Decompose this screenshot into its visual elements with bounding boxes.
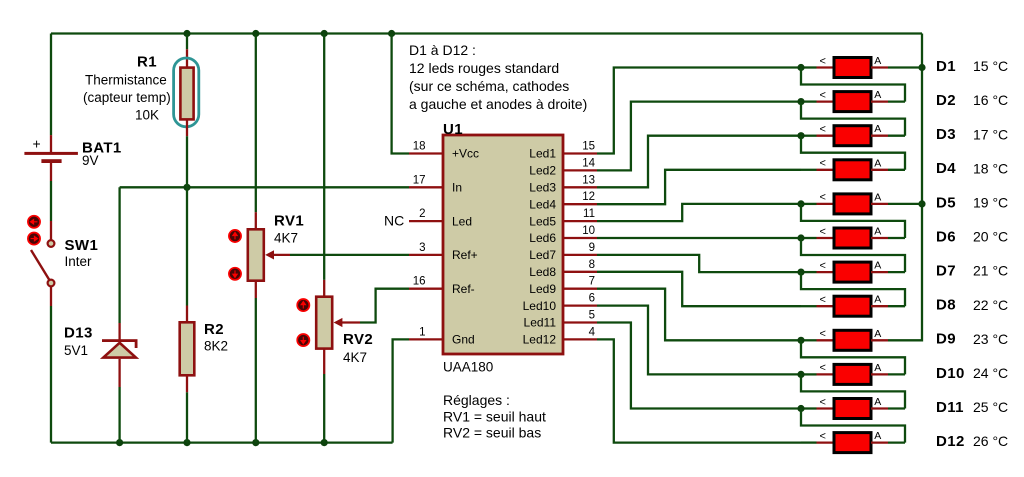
RV1 wiper arrow xyxy=(265,250,274,259)
wire D7 anode to chain xyxy=(888,271,905,273)
LED D3 anode lead xyxy=(871,135,888,137)
node bus D1 xyxy=(918,64,925,71)
svg-text:A: A xyxy=(874,430,881,442)
svg-text:23 °C: 23 °C xyxy=(973,331,1008,347)
svg-text:<: < xyxy=(820,158,826,170)
svg-text:Led4: Led4 xyxy=(529,197,556,211)
LED D3 cathode lead xyxy=(801,135,817,137)
svg-text:16 °C: 16 °C xyxy=(973,92,1008,108)
thermistor envelope xyxy=(174,58,199,127)
wire R2 bottom lead xyxy=(186,375,188,392)
wire pin 13 to D3 xyxy=(597,136,801,188)
svg-text:D1 à D12 :: D1 à D12 : xyxy=(409,42,476,58)
svg-text:RV1 = seuil haut: RV1 = seuil haut xyxy=(443,409,546,425)
LED D11 xyxy=(834,399,871,419)
wire pin 11 to D5 xyxy=(597,204,801,221)
wire D2 anode to chain xyxy=(888,100,905,102)
pin 11 stub xyxy=(563,220,597,222)
node D6 cathode xyxy=(797,234,804,241)
pin 8 stub xyxy=(563,271,597,273)
svg-text:D5: D5 xyxy=(936,194,956,211)
LED D10 cathode lead xyxy=(801,373,817,375)
svg-text:24 °C: 24 °C xyxy=(973,365,1008,381)
RV1 actuator down xyxy=(229,268,241,280)
svg-text:Led12: Led12 xyxy=(523,333,557,347)
battery BAT1 xyxy=(24,152,78,155)
svg-text:A: A xyxy=(874,157,881,169)
pin 17 stub xyxy=(409,186,443,188)
resistor R1 xyxy=(180,68,193,120)
svg-text:12: 12 xyxy=(582,191,595,203)
svg-text:13: 13 xyxy=(582,174,595,186)
svg-text:Réglages :: Réglages : xyxy=(443,392,510,408)
LED D4 anode lead xyxy=(871,169,888,171)
svg-text:8: 8 xyxy=(589,259,595,271)
RV2 wiper arrow xyxy=(334,318,343,327)
svg-text:Led1: Led1 xyxy=(529,147,556,161)
wire R2 top lead xyxy=(186,187,188,305)
pin 7 stub xyxy=(563,288,597,290)
svg-text:<: < xyxy=(820,362,826,374)
svg-text:Led: Led xyxy=(452,214,472,228)
pin 3 stub xyxy=(409,254,443,256)
wire pin 9 to D7 xyxy=(597,255,801,272)
LED D5 cathode lead xyxy=(801,203,817,205)
svg-text:Inter: Inter xyxy=(65,254,93,269)
svg-text:<: < xyxy=(820,89,826,101)
wire gnd riser xyxy=(393,339,409,442)
svg-text:Led3: Led3 xyxy=(529,181,556,195)
wire D4 anode to chain xyxy=(888,169,905,171)
node top rail / R1 xyxy=(183,30,190,37)
svg-text:26 °C: 26 °C xyxy=(973,433,1008,449)
LED D9 xyxy=(834,330,871,350)
svg-text:Gnd: Gnd xyxy=(452,333,475,347)
svg-text:<: < xyxy=(820,260,826,272)
LED D8 anode lead xyxy=(871,305,888,307)
svg-text:Led2: Led2 xyxy=(529,164,556,178)
svg-text:(capteur temp): (capteur temp) xyxy=(83,90,171,105)
potentiometer RV2 xyxy=(316,297,332,349)
wire R1 bottom lead xyxy=(186,119,188,136)
pin 6 stub xyxy=(563,304,597,306)
svg-text:NC: NC xyxy=(384,212,404,228)
svg-text:Led10: Led10 xyxy=(523,299,557,313)
pin 16 stub xyxy=(409,288,443,290)
node bottom rail / R2 xyxy=(183,439,190,446)
node D9 cathode xyxy=(797,337,804,344)
switch SW1 actuator up xyxy=(28,216,40,228)
wire pin 15 to D1 xyxy=(597,68,801,154)
wire pin 12 to D4 xyxy=(597,170,801,204)
svg-text:15 °C: 15 °C xyxy=(973,58,1008,74)
pin 12 stub xyxy=(563,203,597,205)
svg-text:Led5: Led5 xyxy=(529,214,556,228)
svg-text:<: < xyxy=(820,124,826,136)
svg-text:A: A xyxy=(874,260,881,272)
wire D1 anode to bus xyxy=(888,66,922,68)
svg-text:<: < xyxy=(820,328,826,340)
wire R1 top lead xyxy=(186,34,188,50)
diode D13 xyxy=(102,339,138,342)
svg-text:Led6: Led6 xyxy=(529,231,556,245)
pin 10 stub xyxy=(563,237,597,239)
wire bottom ground rail xyxy=(51,441,393,443)
wire chain D7 to D8 xyxy=(801,272,905,306)
LED D7 xyxy=(834,262,871,282)
svg-text:6: 6 xyxy=(589,293,595,305)
node D10 cathode xyxy=(797,371,804,378)
svg-text:+Vcc: +Vcc xyxy=(452,147,479,161)
svg-text:<: < xyxy=(820,294,826,306)
LED D6 cathode lead xyxy=(801,237,817,239)
svg-text:16: 16 xyxy=(413,276,426,288)
svg-text:Led8: Led8 xyxy=(529,265,556,279)
LED D6 anode lead xyxy=(871,237,888,239)
node D3 cathode xyxy=(797,132,804,139)
LED D2 cathode lead xyxy=(801,100,817,102)
wire pin 5 to D11 xyxy=(597,323,801,409)
node top rail / RV2 xyxy=(321,30,328,37)
svg-text:D4: D4 xyxy=(936,160,956,177)
LED D8 cathode lead xyxy=(801,305,817,307)
svg-text:D6: D6 xyxy=(936,228,956,245)
LED D1 anode lead xyxy=(871,66,888,68)
pin 15 stub xyxy=(563,152,597,154)
LED D4 xyxy=(834,160,871,180)
svg-text:<: < xyxy=(820,396,826,408)
svg-text:10: 10 xyxy=(582,225,595,237)
svg-text:18 °C: 18 °C xyxy=(973,160,1008,176)
svg-text:9V: 9V xyxy=(82,153,99,168)
pin 18 stub xyxy=(409,152,443,154)
wire RV1 top feed xyxy=(255,34,257,213)
LED D1 xyxy=(834,58,871,78)
LED D7 cathode lead xyxy=(801,271,817,273)
switch SW1 xyxy=(31,250,50,281)
svg-text:A: A xyxy=(874,89,881,101)
svg-text:(sur ce schéma, cathodes: (sur ce schéma, cathodes xyxy=(409,78,569,94)
LED D5 anode lead xyxy=(871,203,888,205)
svg-text:A: A xyxy=(874,362,881,374)
op-amp U1 body xyxy=(443,135,563,354)
LED D7 anode lead xyxy=(871,271,888,273)
node top rail / pin 18 feed xyxy=(388,30,395,37)
svg-text:2: 2 xyxy=(419,208,425,220)
wire D11 anode to chain xyxy=(888,407,905,409)
svg-text:D8: D8 xyxy=(936,297,956,314)
wire D12 anode to chain xyxy=(888,441,905,443)
wire chain D3 to D4 xyxy=(801,136,905,170)
svg-text:D11: D11 xyxy=(936,399,964,416)
wire D3 anode to chain xyxy=(888,135,905,137)
LED D5 xyxy=(834,194,871,214)
pin 5 stub xyxy=(563,321,597,323)
node D11 cathode xyxy=(797,405,804,412)
svg-text:A: A xyxy=(874,396,881,408)
svg-text:11: 11 xyxy=(583,208,595,220)
wire D13 to ground xyxy=(118,359,120,387)
wire pin 7 to D9 xyxy=(597,289,801,341)
svg-text:3: 3 xyxy=(419,242,425,254)
wire pin 14 to D2 xyxy=(597,102,801,171)
wire chain D2 to D3 xyxy=(801,102,905,136)
svg-text:Ref+: Ref+ xyxy=(452,248,478,262)
svg-text:<: < xyxy=(820,192,826,204)
svg-text:D12: D12 xyxy=(936,433,965,450)
node bottom rail / RV1 xyxy=(252,439,259,446)
svg-text:5V1: 5V1 xyxy=(64,343,88,358)
LED D12 cathode lead xyxy=(801,441,817,443)
LED D12 anode lead xyxy=(871,441,888,443)
svg-text:RV1: RV1 xyxy=(274,213,304,230)
svg-text:D2: D2 xyxy=(936,92,956,109)
node In / R1 / R2 xyxy=(183,184,190,191)
svg-text:9: 9 xyxy=(589,242,595,254)
svg-text:1: 1 xyxy=(419,326,425,338)
node bottom rail / RV2 xyxy=(321,439,328,446)
svg-text:Ref-: Ref- xyxy=(452,282,475,296)
wire D8 anode to chain xyxy=(888,305,905,307)
LED D6 xyxy=(834,228,871,248)
wire pin 8 to D8 xyxy=(597,272,801,306)
node D2 cathode xyxy=(797,98,804,105)
svg-text:12 leds rouges standard: 12 leds rouges standard xyxy=(409,60,559,76)
svg-text:4: 4 xyxy=(589,326,596,338)
node top rail / RV1 xyxy=(252,30,259,37)
pin 4 stub xyxy=(563,338,597,340)
svg-text:18: 18 xyxy=(413,141,426,153)
svg-text:R1: R1 xyxy=(137,54,157,71)
LED D4 cathode lead xyxy=(801,169,817,171)
svg-text:D7: D7 xyxy=(936,263,956,280)
wire RV1 bottom lead xyxy=(255,281,257,298)
RV2 actuator up xyxy=(297,299,309,311)
svg-text:<: < xyxy=(820,55,826,67)
svg-text:22 °C: 22 °C xyxy=(973,297,1008,313)
svg-text:R2: R2 xyxy=(204,321,224,338)
svg-text:D10: D10 xyxy=(936,365,965,382)
wire pin 6 to D10 xyxy=(597,306,801,375)
svg-text:RV2: RV2 xyxy=(343,331,373,348)
svg-text:In: In xyxy=(452,181,462,195)
svg-text:D3: D3 xyxy=(936,126,956,143)
wire pin 4 to D12 xyxy=(597,339,801,442)
wire battery top to rail xyxy=(50,34,52,136)
node D5 cathode xyxy=(797,200,804,207)
svg-text:8K2: 8K2 xyxy=(204,339,228,354)
svg-text:SW1: SW1 xyxy=(65,237,99,254)
wire D6 anode to chain xyxy=(888,237,905,239)
wire pin 10 to D6 xyxy=(597,237,801,239)
pin 14 stub xyxy=(563,169,597,171)
svg-text:D13: D13 xyxy=(64,325,93,342)
wire chain D1 to D2 xyxy=(801,68,905,102)
node D1 cathode xyxy=(797,64,804,71)
wire battery to switch xyxy=(50,163,52,181)
LED D1 cathode lead xyxy=(801,66,817,68)
LED D10 anode lead xyxy=(871,373,888,375)
svg-text:U1: U1 xyxy=(443,121,463,138)
LED D3 xyxy=(834,126,871,146)
svg-text:+: + xyxy=(33,136,41,152)
svg-text:A: A xyxy=(874,226,881,238)
svg-text:14: 14 xyxy=(582,157,595,169)
wire RV2 top feed xyxy=(323,34,325,280)
svg-text:5: 5 xyxy=(589,310,595,322)
svg-text:21 °C: 21 °C xyxy=(973,263,1008,279)
svg-text:Thermistance: Thermistance xyxy=(85,73,167,88)
switch SW1 actuator down xyxy=(28,233,40,245)
svg-text:10K: 10K xyxy=(135,108,159,123)
svg-text:20 °C: 20 °C xyxy=(973,229,1008,245)
LED D8 xyxy=(834,296,871,316)
svg-text:Led7: Led7 xyxy=(529,248,556,262)
pin 2 stub xyxy=(409,220,443,222)
svg-text:15: 15 xyxy=(582,141,595,153)
resistor R2 xyxy=(180,322,195,375)
svg-text:A: A xyxy=(874,328,881,340)
svg-text:Led11: Led11 xyxy=(524,316,557,330)
LED D9 anode lead xyxy=(871,339,888,341)
wire chain D11 to D12 xyxy=(801,409,905,443)
wire anode bus xyxy=(888,34,922,341)
svg-text:4K7: 4K7 xyxy=(274,231,298,246)
wire D10 anode to chain xyxy=(888,373,905,375)
potentiometer RV1 xyxy=(248,229,264,280)
LED D10 xyxy=(834,364,871,384)
svg-text:A: A xyxy=(874,123,881,135)
svg-text:D1: D1 xyxy=(936,58,956,75)
LED D9 cathode lead xyxy=(801,339,817,341)
svg-text:A: A xyxy=(874,294,881,306)
LED D2 anode lead xyxy=(871,100,888,102)
LED D11 anode lead xyxy=(871,407,888,409)
svg-text:25 °C: 25 °C xyxy=(973,399,1008,415)
wire chain D5 to D6 xyxy=(801,204,905,238)
svg-text:Led9: Led9 xyxy=(529,282,556,296)
svg-text:<: < xyxy=(820,226,826,238)
wire node In horizontal xyxy=(120,186,409,188)
pin 9 stub xyxy=(563,254,597,256)
LED D12 xyxy=(834,433,871,453)
node bus D5 xyxy=(918,200,925,207)
svg-text:17: 17 xyxy=(413,174,426,186)
wire chain D9 to D10 xyxy=(801,340,905,374)
wire top +9V rail xyxy=(51,32,922,34)
wire RV2 bottom lead xyxy=(323,349,325,374)
diode D13 lead xyxy=(118,323,120,340)
LED D2 xyxy=(834,92,871,112)
wire chain D10 to D11 xyxy=(801,374,905,408)
svg-text:UAA180: UAA180 xyxy=(443,360,493,375)
RV2 actuator down xyxy=(297,334,309,346)
svg-text:19 °C: 19 °C xyxy=(973,195,1008,211)
LED D11 cathode lead xyxy=(801,407,817,409)
svg-text:a gauche et anodes à droite): a gauche et anodes à droite) xyxy=(409,96,587,112)
node D7 cathode xyxy=(797,269,804,276)
pin 1 stub xyxy=(409,338,443,340)
svg-text:<: < xyxy=(820,430,826,442)
svg-text:7: 7 xyxy=(589,276,595,288)
svg-text:D9: D9 xyxy=(936,331,956,348)
wire switch to ground rail xyxy=(50,287,52,307)
node bottom rail / D13 xyxy=(116,439,123,446)
wire pin18 feed xyxy=(392,34,409,154)
svg-text:4K7: 4K7 xyxy=(343,350,367,365)
svg-text:17 °C: 17 °C xyxy=(973,126,1008,142)
pin 13 stub xyxy=(563,186,597,188)
wire D5 anode to bus xyxy=(888,203,922,205)
svg-text:RV2 = seuil bas: RV2 = seuil bas xyxy=(443,425,541,441)
wire chain D6 to D7 xyxy=(801,238,905,272)
svg-text:A: A xyxy=(874,55,881,67)
RV1 actuator up xyxy=(229,230,241,242)
svg-text:A: A xyxy=(874,191,881,203)
